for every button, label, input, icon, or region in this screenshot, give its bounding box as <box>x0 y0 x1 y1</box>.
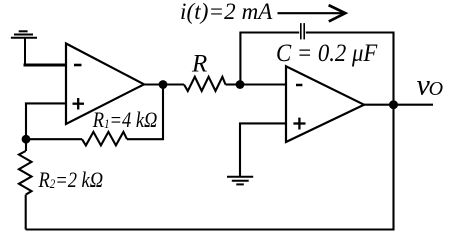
node B (U1 output) <box>159 80 168 89</box>
wire: capacitor to right vertical <box>306 31 395 33</box>
wire: U1 output <box>144 83 163 85</box>
U2 plus pin label <box>293 118 305 130</box>
U1 minus pin label <box>74 64 82 67</box>
wire: node C to U2 inverting input <box>240 83 286 85</box>
node A junction <box>22 135 31 144</box>
capacitor C <box>301 23 304 39</box>
wire: down to node A <box>25 103 27 140</box>
wire: top left segment to capacitor <box>239 31 299 33</box>
node C junction <box>236 80 245 89</box>
wire: U2 noninverting input <box>240 123 286 176</box>
op-amp U2 <box>286 66 364 142</box>
wire: R to node C <box>226 83 241 85</box>
op-amp U1 <box>66 44 144 125</box>
ground GND2 <box>227 177 253 185</box>
svg-text:i(t)=2 mA: i(t)=2 mA <box>180 0 273 24</box>
ground GND1 (inverted, top-left) <box>11 31 37 65</box>
wire: output to vO <box>394 104 434 106</box>
wire: bottom feedback run <box>26 105 394 230</box>
resistor R <box>184 77 226 91</box>
wire: U2 output <box>364 104 394 106</box>
svg-text:C = 0.2 μF: C = 0.2 μF <box>276 40 378 67</box>
current arrow <box>278 5 346 21</box>
wire: node C up to capacitor branch <box>239 33 241 85</box>
svg-text:R: R <box>191 50 207 77</box>
U2 minus pin label <box>296 84 302 87</box>
wire: GND1 to U1 inverting input <box>24 64 68 67</box>
svg-text:R2=2 kΩ: R2=2 kΩ <box>38 169 104 193</box>
wire: U1 noninverting input left <box>25 102 66 104</box>
node D (U2 output) <box>389 100 398 109</box>
wire: node A to R1 <box>26 138 82 140</box>
resistor R1 <box>82 132 127 146</box>
wire: node B to R <box>163 83 184 85</box>
U1 plus pin label <box>73 98 85 110</box>
wire: down to U2 output node <box>392 33 394 105</box>
wire: R1 to U1 output node <box>127 85 163 140</box>
resistor R2 <box>19 139 32 229</box>
svg-text:vO: vO <box>417 68 443 101</box>
svg-text:R1=4 kΩ: R1=4 kΩ <box>92 109 158 133</box>
